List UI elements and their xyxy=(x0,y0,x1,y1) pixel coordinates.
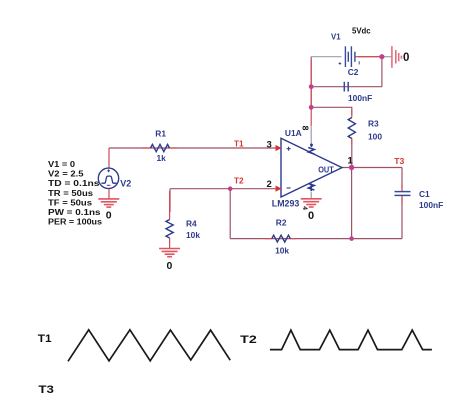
svg-text:PW = 0.1ns: PW = 0.1ns xyxy=(48,208,101,217)
svg-text:LM293: LM293 xyxy=(272,198,300,208)
svg-text:C1: C1 xyxy=(419,189,430,199)
svg-text:U1A: U1A xyxy=(285,128,302,138)
svg-text:3: 3 xyxy=(267,140,272,151)
svg-text:TD = 0.1ns: TD = 0.1ns xyxy=(48,179,100,188)
svg-text:T2: T2 xyxy=(234,177,244,186)
svg-text:100nF: 100nF xyxy=(419,200,443,210)
svg-text:0: 0 xyxy=(106,210,112,222)
svg-text:T3: T3 xyxy=(38,384,54,396)
svg-text:10k: 10k xyxy=(186,230,200,240)
svg-text:10k: 10k xyxy=(275,245,289,255)
svg-text:R1: R1 xyxy=(155,129,166,139)
svg-text:0: 0 xyxy=(167,260,173,272)
svg-text:1: 1 xyxy=(348,156,354,167)
svg-text:TR = 50us: TR = 50us xyxy=(48,189,94,198)
svg-text:8: 8 xyxy=(301,126,311,131)
svg-text:T2: T2 xyxy=(240,334,257,346)
svg-text:T1: T1 xyxy=(234,140,244,149)
svg-text:T1: T1 xyxy=(38,333,52,345)
svg-text:PER = 100us: PER = 100us xyxy=(48,218,103,227)
svg-text:R2: R2 xyxy=(276,218,287,228)
svg-text:V2 = 2.5: V2 = 2.5 xyxy=(48,170,84,179)
svg-text:TF = 50us: TF = 50us xyxy=(48,198,93,207)
svg-text:V2: V2 xyxy=(120,179,131,189)
svg-text:R4: R4 xyxy=(186,218,197,228)
svg-text:0: 0 xyxy=(403,52,409,64)
svg-text:2: 2 xyxy=(267,179,272,190)
svg-text:100nF: 100nF xyxy=(348,93,372,103)
svg-text:0: 0 xyxy=(308,210,314,222)
svg-text:V1 = 0: V1 = 0 xyxy=(48,160,76,169)
svg-text:100: 100 xyxy=(368,132,382,142)
svg-text:OUT: OUT xyxy=(318,166,334,175)
svg-text:5Vdc: 5Vdc xyxy=(352,27,371,36)
svg-text:1k: 1k xyxy=(157,153,167,163)
svg-text:V1: V1 xyxy=(331,33,341,42)
svg-text:R3: R3 xyxy=(368,119,379,129)
svg-text:4: 4 xyxy=(301,206,308,210)
svg-text:T3: T3 xyxy=(394,156,404,166)
svg-text:C2: C2 xyxy=(348,67,359,77)
